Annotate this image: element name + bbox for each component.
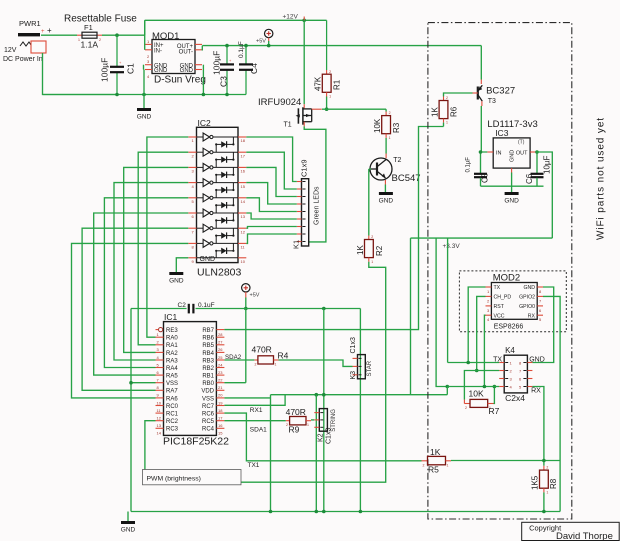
svg-text:R6: R6: [450, 106, 459, 117]
svg-text:RA2: RA2: [166, 351, 178, 357]
svg-text:ULN2803: ULN2803: [197, 267, 242, 279]
svg-text:+12V: +12V: [283, 14, 299, 21]
connector K1 C1x9 Green LEDs: [292, 159, 321, 249]
svg-text:26: 26: [218, 347, 223, 352]
svg-text:2: 2: [446, 96, 448, 100]
wires IC2 outputs to K1: [246, 137, 296, 243]
junction RX row link: [446, 385, 450, 389]
wire K4 RX to R8 node: [532, 387, 544, 466]
wire MOD2 GND to K4 GND: [532, 287, 553, 363]
wire +5V to T3 emitter: [480, 46, 482, 80]
svg-text:+: +: [47, 26, 52, 35]
ULN2803 internal buffers and diodes: [197, 133, 239, 258]
svg-text:R3: R3: [392, 122, 401, 133]
svg-text:15: 15: [241, 184, 246, 189]
+12V rail: [145, 19, 327, 21]
svg-text:13: 13: [157, 423, 162, 428]
svg-text:25: 25: [218, 355, 223, 360]
svg-text:19: 19: [218, 400, 223, 405]
svg-text:WiFi parts not used yet: WiFi parts not used yet: [596, 117, 607, 240]
svg-text:1: 1: [446, 121, 448, 125]
resistor R5 1K: [422, 447, 452, 475]
svg-text:RA1: RA1: [166, 343, 178, 349]
junction bottom rail K3 line: [359, 510, 363, 514]
wire MOD1 OUT pins join: [201, 46, 203, 51]
svg-text:1: 1: [307, 423, 309, 427]
svg-text:470R: 470R: [286, 407, 306, 417]
svg-text:1: 1: [447, 463, 449, 467]
svg-text:T1: T1: [284, 122, 292, 129]
svg-text:RX: RX: [528, 313, 536, 319]
fuse F1 1.1A resettable: [64, 14, 137, 50]
svg-text:MOD1: MOD1: [152, 31, 179, 42]
wire RC7 RX1 net: [224, 395, 285, 406]
junction ground rail GND symbol: [142, 93, 146, 97]
connector K4 C2x4: [493, 346, 545, 403]
svg-text:GND: GND: [504, 197, 519, 204]
svg-text:+3.3V: +3.3V: [443, 243, 461, 250]
connector K2 C1x3 STRING: [314, 409, 337, 444]
svg-text:C1x9: C1x9: [300, 159, 309, 177]
svg-text:(T): (T): [518, 140, 525, 146]
svg-text:RA7: RA7: [166, 389, 178, 395]
svg-text:VDD: VDD: [201, 389, 214, 395]
svg-text:+5V: +5V: [256, 39, 266, 45]
svg-text:David Thorpe: David Thorpe: [556, 531, 613, 541]
svg-text:RB6: RB6: [202, 336, 214, 342]
wire up to +12V rail: [144, 20, 146, 35]
IC IC2 ULN2803 darlington array: [197, 118, 242, 279]
svg-text:1K: 1K: [430, 447, 441, 457]
svg-text:10K: 10K: [469, 388, 484, 398]
svg-text:VCC: VCC: [494, 313, 505, 319]
svg-text:1: 1: [389, 136, 391, 140]
wire MOD1 left GND pins to ground rail: [143, 65, 145, 70]
wire T1 drain to K1 pin9: [304, 126, 326, 241]
svg-text:12V: 12V: [4, 47, 17, 54]
svg-text:IN-: IN-: [154, 49, 162, 55]
svg-text:RC4: RC4: [202, 427, 215, 433]
svg-text:T3: T3: [488, 98, 496, 105]
svg-text:RC2: RC2: [166, 419, 179, 425]
svg-text:PWR1: PWR1: [19, 19, 41, 28]
svg-text:21: 21: [218, 385, 223, 390]
wire R5 to R8 node and GPIO2 line: [451, 460, 560, 462]
wire R2 bottom to PWM net: [241, 262, 386, 482]
capacitor C6 10uF: [525, 152, 552, 186]
junction CH_PD crossing: [475, 369, 479, 373]
svg-text:2: 2: [546, 465, 548, 469]
junction R1 bottom gate node: [325, 107, 329, 111]
dashed box WiFi parts not used yet: [428, 23, 572, 519]
svg-text:18: 18: [218, 408, 223, 413]
svg-text:GND: GND: [154, 68, 168, 74]
svg-text:R7: R7: [489, 406, 500, 416]
wire GPIO2 node down to bottom rail: [559, 461, 561, 512]
wire +3.3V drop to ground run: [410, 238, 412, 395]
wire R9 to K2 middle pin: [311, 419, 314, 421]
svg-text:R8: R8: [549, 478, 558, 489]
capacitor C5 0.1uF: [466, 152, 490, 186]
svg-text:R4: R4: [278, 351, 289, 361]
svg-text:27: 27: [218, 340, 223, 345]
svg-text:Resettable Fuse: Resettable Fuse: [64, 14, 137, 25]
+5V power symbol top: [265, 29, 273, 37]
svg-text:2: 2: [371, 235, 373, 239]
wire IC1 VSS pin8 to GND vertical: [131, 382, 156, 384]
svg-text:RC7: RC7: [202, 404, 215, 410]
svg-text:K1: K1: [292, 240, 301, 249]
wire RX row into K4: [447, 386, 499, 388]
transistor T1 IRFU9024 P-MOSFET: [258, 20, 322, 128]
resistor R7 10K: [464, 388, 499, 416]
IC IC1 PIC18F25K22 microcontroller: [156, 312, 230, 448]
svg-text:GND: GND: [510, 150, 516, 162]
svg-text:RA5: RA5: [166, 374, 178, 380]
capacitor C2 0.1uF decoupling: [178, 302, 215, 313]
svg-text:R5: R5: [428, 465, 439, 475]
svg-text:1: 1: [371, 260, 373, 264]
dashed box around MOD2: [459, 271, 566, 332]
svg-text:BC547: BC547: [392, 173, 421, 184]
svg-text:RC6: RC6: [202, 412, 215, 418]
svg-text:STRING: STRING: [331, 409, 337, 432]
svg-text:24: 24: [218, 362, 223, 367]
junction C3 bottom: [225, 93, 229, 97]
svg-text:15: 15: [218, 431, 223, 436]
svg-text:2: 2: [465, 406, 467, 410]
svg-text:10µF: 10µF: [543, 155, 552, 174]
wire T3 base to R6: [444, 93, 473, 97]
junction +5V symbol: [267, 44, 271, 48]
junction +12V T1 source: [302, 19, 306, 23]
svg-text:C5: C5: [481, 172, 490, 183]
ground symbol T2 emitter: [379, 192, 393, 195]
svg-text:0.1µF: 0.1µF: [238, 41, 245, 58]
svg-text:BC327: BC327: [486, 85, 515, 96]
svg-text:GND: GND: [200, 256, 216, 263]
svg-text:C2: C2: [178, 302, 187, 309]
svg-text:13: 13: [241, 214, 246, 219]
junction bottom rail K2 line: [322, 510, 326, 514]
connector K3 C1x3 STAR: [350, 337, 373, 379]
wire +12V input to MOD1 IN pins: [144, 20, 146, 50]
svg-text:2: 2: [329, 70, 331, 74]
svg-text:RB3: RB3: [202, 358, 214, 364]
+3.3V rail: [411, 237, 553, 239]
resistor R6 1K: [431, 96, 459, 127]
wire T2 base to R2: [369, 168, 371, 170]
svg-text:18: 18: [241, 138, 246, 143]
svg-text:RB7: RB7: [202, 328, 214, 334]
svg-text:16: 16: [241, 169, 246, 174]
wire R4 to K3 STAR connector: [279, 360, 353, 366]
svg-text:1: 1: [78, 38, 80, 42]
svg-text:VSS: VSS: [166, 381, 178, 387]
wire MOD2 CH_PD to K4: [477, 296, 486, 370]
wire IC2 GND pin to ground symbol: [176, 258, 188, 272]
IC3 ground rail and GND symbol: [481, 185, 544, 187]
wire PWR1 to fuse: [41, 34, 77, 36]
svg-text:470R: 470R: [252, 344, 272, 354]
wire VSS pin19 to ground run: [224, 397, 270, 399]
svg-text:10K: 10K: [373, 118, 382, 133]
svg-text:C3: C3: [218, 76, 228, 87]
wire IC3 OUT to +3.3V corner: [536, 152, 552, 238]
transistor T3 BC327 PNP: [473, 80, 516, 107]
svg-text:DC Power In: DC Power In: [3, 56, 43, 63]
vertical wire through K2 to bottom rail: [323, 309, 325, 512]
svg-text:100µF: 100µF: [100, 58, 110, 82]
wire K4 row1 feed: [448, 362, 500, 364]
svg-text:K4: K4: [505, 346, 515, 355]
+5V output wire from MOD1: [202, 45, 481, 47]
resistor R9 470R: [286, 407, 311, 435]
wire PWR1 negative to ground rail: [43, 53, 118, 95]
wire R7 right up to RX row: [493, 387, 496, 404]
svg-text:TX1: TX1: [248, 462, 260, 469]
svg-text:1: 1: [546, 490, 548, 494]
svg-text:RST: RST: [494, 304, 505, 310]
resistor R3 10K: [373, 109, 401, 153]
svg-text:D-Sun Vreg: D-Sun Vreg: [154, 75, 206, 86]
svg-text:1: 1: [275, 363, 277, 367]
wire +5V distribution line with C2: [131, 308, 187, 310]
svg-text:1K5: 1K5: [531, 475, 540, 490]
transistor T2 BC547 NPN: [370, 154, 421, 193]
junction C1 top: [115, 33, 119, 37]
junction bottom rail R8: [542, 510, 546, 514]
svg-text:RC0: RC0: [166, 404, 179, 410]
junction K2 feed on +5V line: [322, 307, 326, 311]
svg-text:RC3: RC3: [166, 427, 179, 433]
wire RB7 to R6 via right side: [224, 127, 443, 330]
svg-text:RX1: RX1: [250, 407, 263, 414]
svg-text:GND: GND: [121, 526, 136, 533]
resistor R8 1K5: [531, 465, 559, 511]
svg-text:17: 17: [218, 416, 223, 421]
svg-text:RB2: RB2: [202, 366, 214, 372]
svg-text:SDA2: SDA2: [225, 354, 242, 361]
wire RC2 to PWM label: [145, 421, 156, 470]
svg-text:0.1uF: 0.1uF: [198, 302, 215, 309]
svg-text:GND: GND: [137, 113, 152, 120]
svg-text:K3: K3: [350, 371, 357, 380]
svg-text:VSS: VSS: [202, 396, 214, 402]
svg-text:0.1µF: 0.1µF: [466, 157, 472, 173]
svg-text:2: 2: [423, 463, 425, 467]
svg-text:1: 1: [329, 95, 331, 99]
svg-text:1K: 1K: [431, 107, 440, 117]
net label PWM brightness: [143, 470, 242, 485]
wire bundle IC2 inputs to IC1 port A: [72, 137, 189, 398]
svg-text:17: 17: [241, 153, 246, 158]
vertical wire through K3 to bottom rail: [359, 309, 361, 512]
svg-text:Green LEDs: Green LEDs: [314, 186, 321, 225]
IC2 pin stubs and numbers: [188, 137, 246, 264]
wire MOD2 TX to K4: [468, 287, 485, 363]
svg-text:GPIO0: GPIO0: [519, 304, 535, 310]
wire +3.3V drop to K4 RX row: [436, 238, 447, 386]
module MOD2 ESP8266: [486, 273, 544, 331]
svg-text:RB1: RB1: [202, 374, 214, 380]
wire RC5 SDA1 to R9: [224, 420, 285, 422]
svg-text:C2x4: C2x4: [505, 393, 525, 403]
wire MOD2 VCC down to RX row: [484, 315, 485, 386]
svg-text:IC2: IC2: [198, 118, 212, 128]
svg-text:GND: GND: [180, 68, 194, 74]
svg-text:RA0: RA0: [166, 336, 178, 342]
svg-text:R1: R1: [333, 79, 342, 90]
svg-text:1K: 1K: [356, 245, 365, 255]
svg-text:10: 10: [157, 400, 162, 405]
svg-text:TX: TX: [494, 285, 501, 291]
connector PWR1 12V DC power in: [3, 19, 52, 63]
svg-text:2: 2: [99, 38, 101, 42]
ground symbol input section: [143, 95, 145, 109]
svg-text:RA4: RA4: [166, 366, 178, 372]
svg-text:RX: RX: [531, 388, 541, 395]
svg-text:PIC18F25K22: PIC18F25K22: [163, 436, 229, 448]
svg-text:23: 23: [218, 370, 223, 375]
ground symbol IC2: [169, 272, 183, 275]
junction R8 top: [542, 459, 546, 463]
svg-text:GPIO2: GPIO2: [519, 295, 535, 301]
junction ground rail C1: [115, 93, 119, 97]
svg-text:RC5: RC5: [202, 419, 215, 425]
wire RB3 SDA2 to R4: [224, 359, 254, 361]
voltage regulator IC3 LD1117-3v3: [487, 119, 537, 173]
ground symbol bottom: [127, 512, 129, 522]
svg-text:2: 2: [255, 363, 257, 367]
svg-text:GND: GND: [379, 197, 394, 204]
svg-text:14: 14: [157, 431, 162, 436]
svg-text:PWM (brightness): PWM (brightness): [147, 476, 201, 483]
svg-text:47K: 47K: [314, 76, 323, 91]
svg-text:C1: C1: [126, 63, 136, 74]
junction C4 top: [244, 44, 248, 48]
svg-text:R2: R2: [375, 245, 384, 256]
svg-text:RB4: RB4: [202, 351, 214, 357]
svg-text:28: 28: [218, 332, 223, 337]
junction R7 at RX row: [493, 385, 497, 389]
svg-text:16: 16: [218, 423, 223, 428]
GND vertical from C2 line down left side: [130, 309, 132, 512]
svg-text:C4: C4: [249, 63, 259, 74]
svg-text:RA3: RA3: [166, 358, 178, 364]
svg-text:+: +: [41, 29, 45, 35]
svg-text:GND: GND: [529, 356, 545, 363]
svg-text:OUT: OUT: [516, 151, 528, 157]
junction C3 top: [225, 44, 229, 48]
svg-text:12: 12: [241, 229, 246, 234]
svg-text:14: 14: [241, 199, 246, 204]
ground rail bottom of input section: [43, 94, 247, 96]
junction ground run VSS drop: [315, 393, 319, 397]
junction +5V at distribution line: [244, 307, 248, 311]
svg-text:22: 22: [218, 378, 223, 383]
capacitor C3 100uF: [212, 46, 235, 95]
resistor R2 1K: [356, 235, 384, 264]
svg-text:STAR: STAR: [367, 360, 373, 376]
svg-text:C6: C6: [525, 173, 534, 184]
svg-text:RE3: RE3: [166, 328, 178, 334]
voltage regulator module MOD1 D-Sun Vreg: [145, 31, 206, 86]
wire fuse to C1 and MOD1: [102, 34, 145, 36]
svg-text:IN: IN: [496, 151, 502, 157]
svg-text:RC1: RC1: [166, 412, 179, 418]
capacitor C1 100uF: [100, 35, 136, 94]
svg-text:T2: T2: [393, 157, 401, 164]
svg-text:K2: K2: [318, 433, 325, 442]
+5V power symbol near IC1: [242, 284, 250, 292]
svg-text:12: 12: [157, 416, 162, 421]
resistor R4 470R: [252, 344, 289, 366]
svg-text:F1: F1: [84, 23, 93, 32]
wire RB0 to +5V line: [224, 382, 245, 384]
resistor R1 47K: [314, 20, 342, 109]
svg-text:1.1A: 1.1A: [81, 40, 99, 50]
svg-text:GND: GND: [523, 285, 535, 291]
svg-text:20: 20: [218, 393, 223, 398]
svg-text:+5V: +5V: [250, 293, 260, 299]
svg-text:RB5: RB5: [202, 343, 214, 349]
junction C6 at OUT node: [535, 150, 539, 154]
capacitor C4 0.1uF: [238, 41, 259, 94]
junction C5 at IN node: [479, 150, 483, 154]
svg-text:10: 10: [241, 259, 246, 264]
ground run horizontal to WiFi box: [271, 394, 448, 396]
junction bottom rail VSS drop: [269, 510, 273, 514]
copyright title block David Thorpe: [522, 522, 620, 541]
svg-text:IRFU9024: IRFU9024: [258, 97, 301, 108]
svg-text:IC3: IC3: [495, 128, 509, 138]
bottom ground rail: [131, 511, 560, 513]
junction bottom rail 316: [315, 510, 319, 514]
junction TX drop at K4 row1: [466, 361, 470, 365]
svg-text:SDA1: SDA1: [250, 427, 267, 434]
svg-text:C1x3: C1x3: [350, 337, 357, 353]
wire MOD1 right GND pins to ground rail: [202, 65, 204, 95]
junction VSS pin8: [129, 381, 133, 385]
svg-text:ESP8266: ESP8266: [494, 324, 524, 331]
svg-text:GND: GND: [169, 277, 184, 284]
junction ground run at K2 vertical: [322, 393, 326, 397]
wire RC6 TX1 to R5: [224, 413, 421, 461]
svg-text:100µF: 100µF: [212, 51, 222, 75]
wire T3 collector to IC3 IN: [481, 106, 487, 152]
svg-text:2: 2: [389, 111, 391, 115]
wire gate node horizontal: [322, 108, 386, 110]
junction MOD1 gnd at rail: [202, 93, 206, 97]
svg-text:RB0: RB0: [202, 381, 214, 387]
svg-text:RA6: RA6: [166, 396, 178, 402]
wire K4 row2 feed with R7: [464, 371, 499, 400]
svg-text:OUT-: OUT-: [179, 50, 193, 56]
svg-text:CH_PD: CH_PD: [494, 295, 512, 301]
junction VCC drop at RX row: [483, 385, 487, 389]
wire MOD2 GPIO2 down to R5 node: [543, 296, 560, 460]
svg-text:IC1: IC1: [164, 312, 178, 322]
svg-text:R9: R9: [289, 425, 300, 435]
